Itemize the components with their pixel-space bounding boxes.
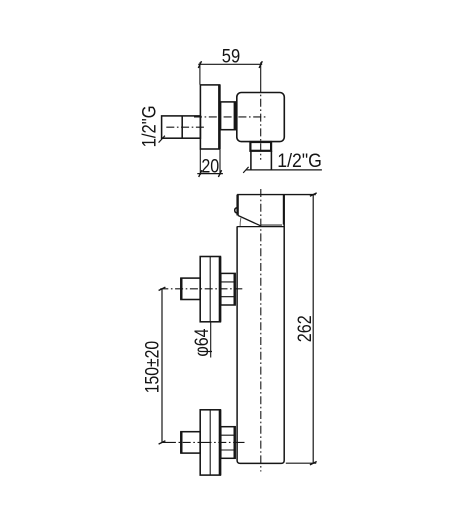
phi64 leader line <box>210 322 212 358</box>
lower hex nut thick right face <box>234 427 236 459</box>
label 1/2"G left tick <box>159 136 165 143</box>
connector nut between plate and body <box>221 102 237 130</box>
dimension 20 extension right <box>219 150 221 175</box>
outlet pipe right edge <box>270 151 272 170</box>
mixer vertical centerline <box>260 189 262 472</box>
dimension 262 tick top <box>310 193 317 196</box>
dimension 59 line <box>198 63 262 65</box>
svg-text:1/2"G: 1/2"G <box>139 105 161 147</box>
handle seam gray <box>261 224 282 226</box>
dimension 20 extension left <box>199 150 201 175</box>
leader underline for 1/2"G bottom label <box>246 169 322 171</box>
dimension 150 tick bottom <box>159 441 166 444</box>
dimension 59 extension line right (solid above body) <box>260 62 262 84</box>
handle left thick edge <box>236 195 238 216</box>
upper flange thick right edge <box>219 257 222 322</box>
centerline vertical of elbow body <box>260 84 262 160</box>
upper inlet centerline <box>160 288 244 290</box>
lower flange <box>200 410 220 475</box>
dimension 262 tick bottom <box>310 462 317 465</box>
dimension 150+-20 line <box>161 289 163 443</box>
outlet nut below body <box>250 142 271 151</box>
wall plate <box>200 85 219 149</box>
leader tick <box>243 167 248 173</box>
centerline horizontal of inlet pipe axis <box>166 126 204 128</box>
handle main diagonal <box>238 215 262 226</box>
dimension 59 tick right <box>259 61 262 68</box>
svg-text:262: 262 <box>294 315 316 342</box>
dimension 20 tick right <box>218 170 221 177</box>
dimension 20 line <box>197 173 223 175</box>
outlet pipe left edge <box>250 151 252 170</box>
handle thin front edge <box>239 218 242 226</box>
svg-text:150±20: 150±20 <box>142 341 164 394</box>
inlet pipe divider <box>181 116 183 138</box>
dimension 59 tick left <box>198 61 201 68</box>
upper hex nut thick right face <box>234 273 236 305</box>
upper flange inner line <box>209 257 211 322</box>
dimension 262 line <box>312 195 314 464</box>
upper flange <box>200 257 220 322</box>
svg-text:1/2"G: 1/2"G <box>277 150 322 172</box>
dimension 262 bottom extension <box>286 462 316 464</box>
svg-text:φ64: φ64 <box>191 328 213 356</box>
lower hex nut <box>221 427 235 459</box>
mixer top edge plus 262 top extension <box>237 194 316 196</box>
upper hex nut <box>221 273 235 305</box>
mixer column outline <box>237 195 284 464</box>
connector nut thick right face <box>234 102 236 130</box>
svg-text:20: 20 <box>201 156 219 178</box>
mixer shoulder line <box>237 226 284 228</box>
lower flange inner line <box>209 410 211 475</box>
handle right vertical <box>282 195 284 225</box>
lower flange thick right edge <box>219 410 222 475</box>
dimension 20 tick left <box>199 170 202 177</box>
elbow body (rounded square) <box>237 93 284 142</box>
dimension 150 tick top <box>159 287 166 290</box>
lower inlet pipe <box>181 432 200 453</box>
inlet pipe (top view) <box>162 116 201 138</box>
handle lever tip bump <box>235 208 238 214</box>
upper inlet pipe <box>181 278 200 299</box>
wall plate thick right edge <box>218 85 221 149</box>
lower inlet centerline <box>162 441 245 443</box>
centerline horizontal of elbow body axis <box>194 116 266 118</box>
lower inlet pipe thick end face <box>180 432 182 453</box>
upper inlet pipe thick end face <box>180 278 182 299</box>
lower hex nut flats <box>221 435 235 450</box>
upper hex nut flats <box>221 282 235 297</box>
dimension 59 extension line left <box>199 62 201 84</box>
